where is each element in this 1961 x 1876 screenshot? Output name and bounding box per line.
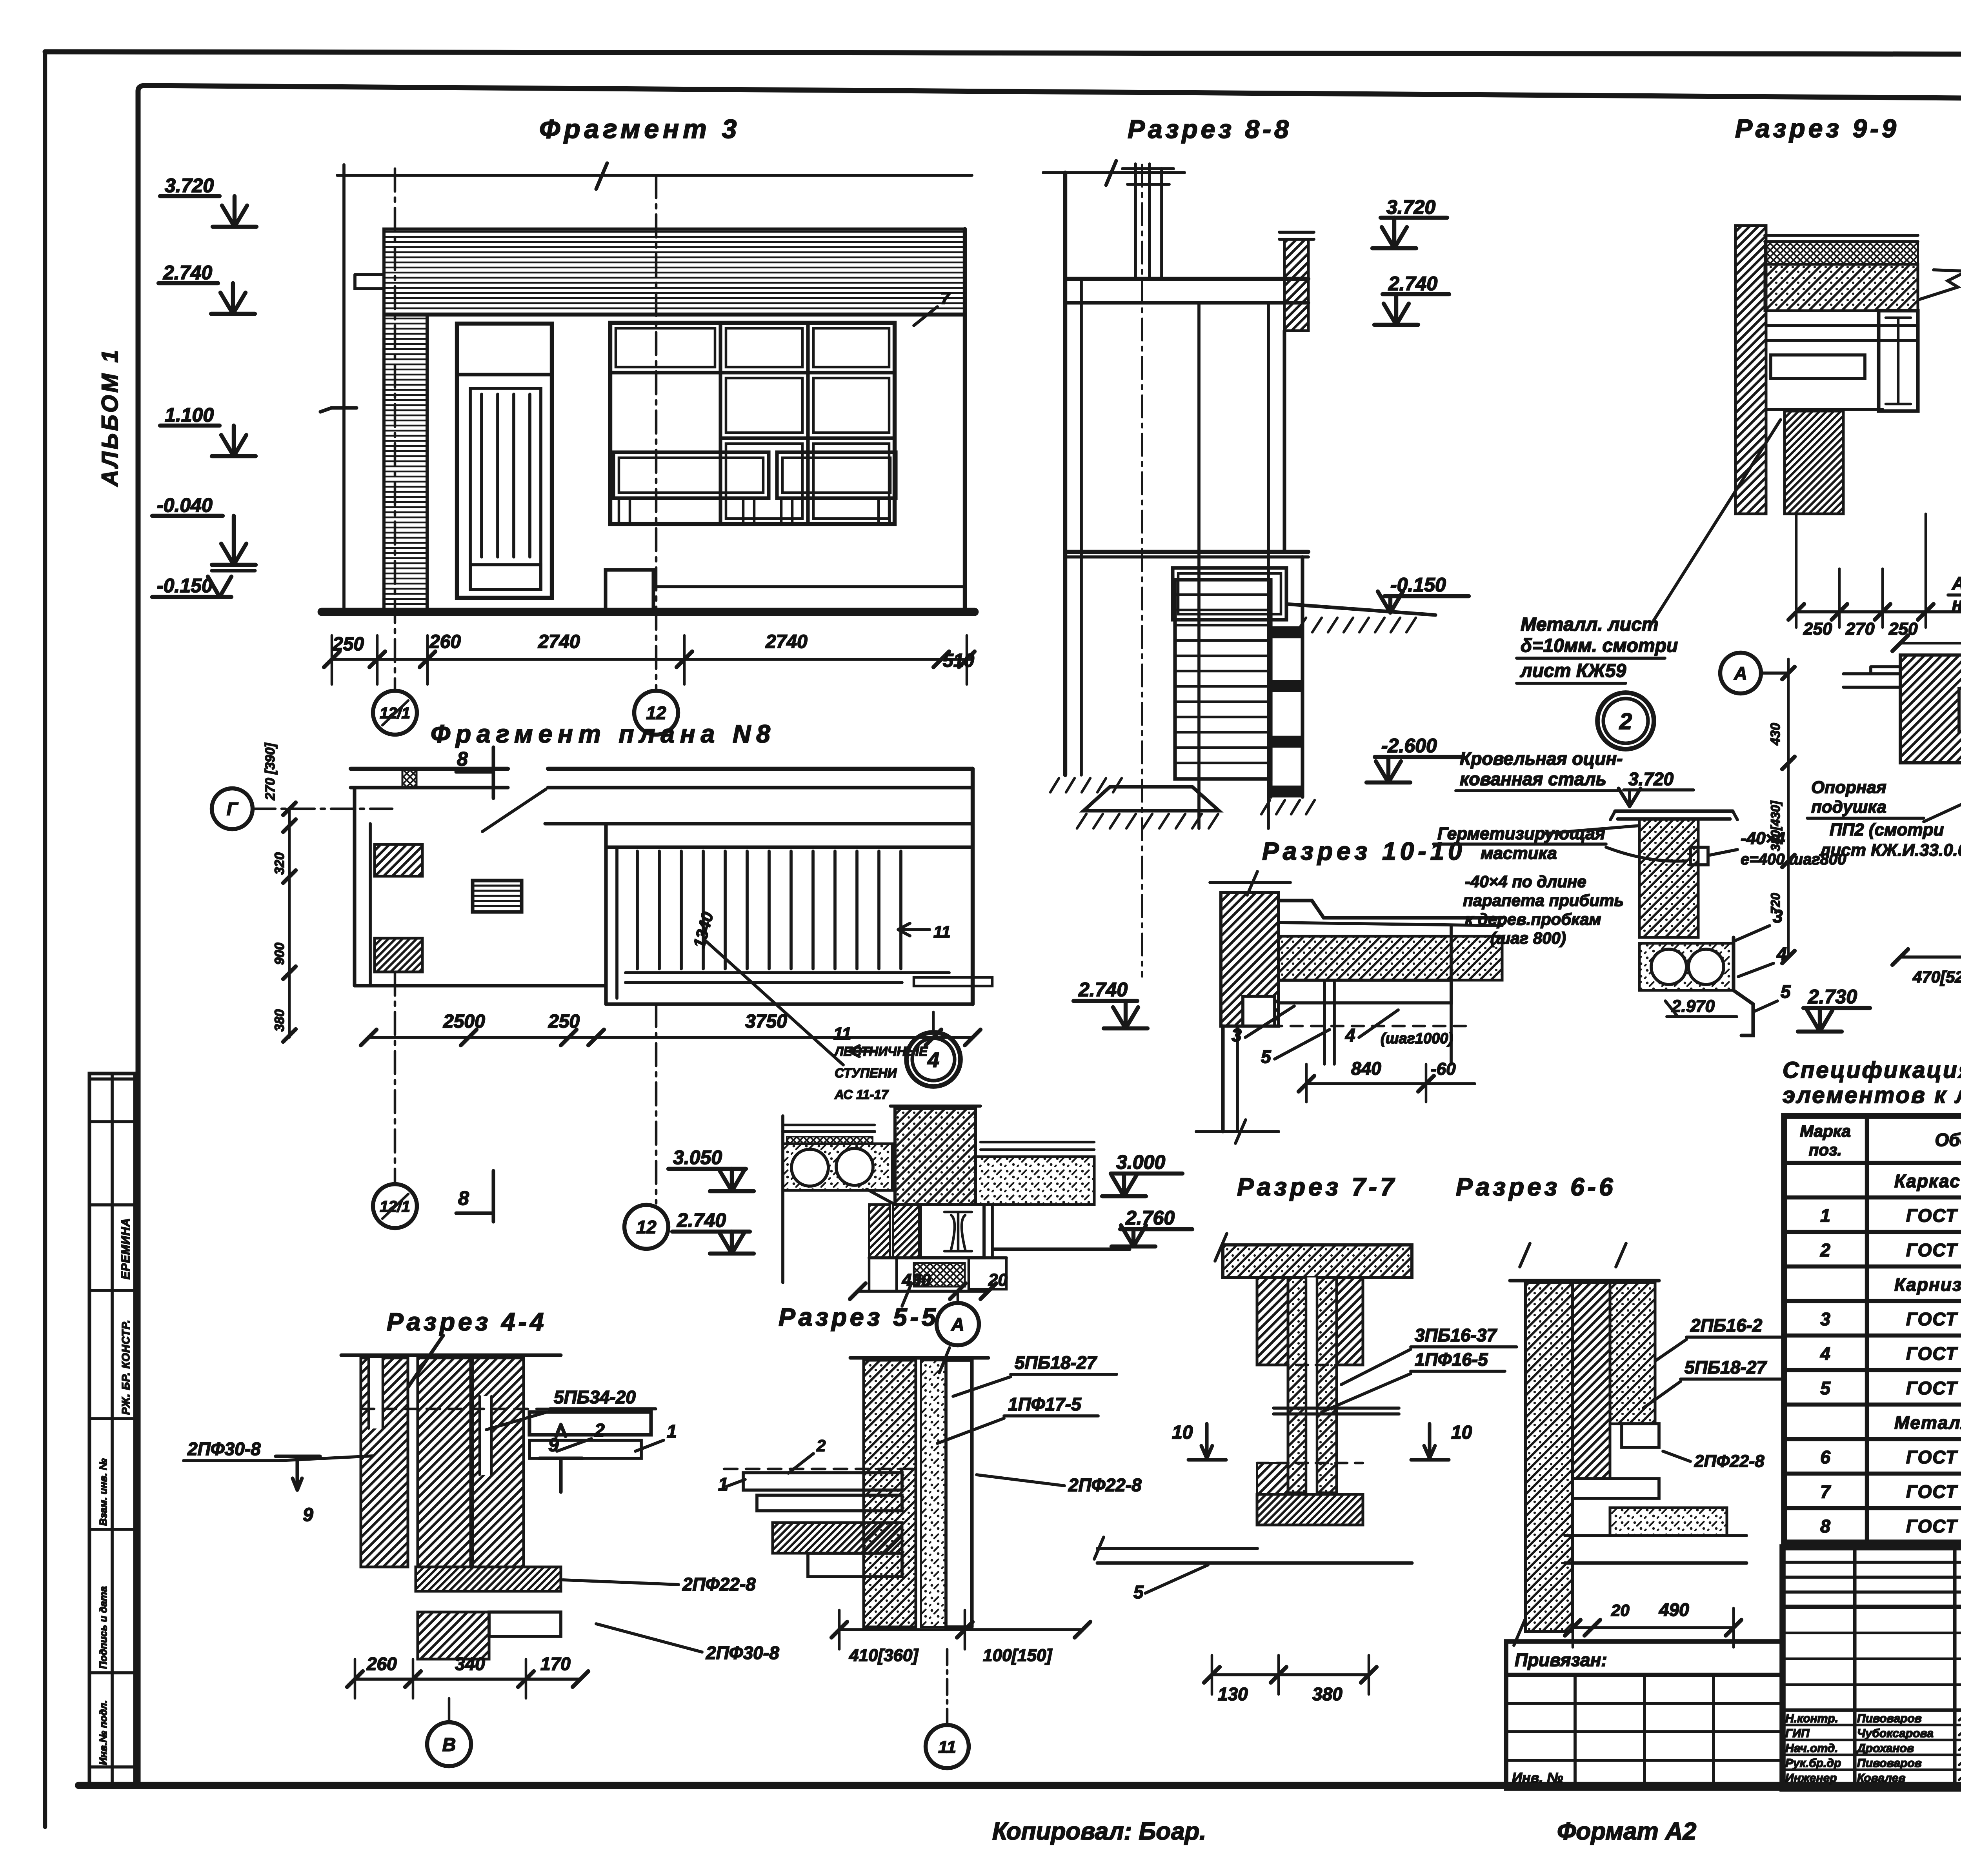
svg-text:20: 20 — [988, 1270, 1008, 1290]
plan column 2 (hatched) — [375, 938, 422, 972]
plan left wall — [353, 788, 356, 986]
6-6 tall wall (dotted hatch) — [1526, 1283, 1573, 1632]
svg-text:Привязан:: Привязан: — [1515, 1650, 1607, 1670]
svg-text:130: 130 — [1218, 1684, 1248, 1704]
spec table grid — [1784, 1116, 1961, 1543]
svg-text:4: 4 — [1345, 1025, 1355, 1045]
svg-text:2: 2 — [1619, 709, 1632, 734]
svg-text:10: 10 — [1451, 1422, 1472, 1443]
svg-text:2740: 2740 — [765, 631, 808, 652]
svg-text:ГОСТ 8510-86: ГОСТ 8510-86 — [1906, 1447, 1961, 1467]
svg-text:3ПБ16-37: 3ПБ16-37 — [1415, 1325, 1497, 1345]
left margin stamp strip — [89, 1074, 135, 1785]
svg-text:900: 900 — [272, 943, 287, 965]
facade right edge — [963, 229, 967, 612]
svg-text:9: 9 — [303, 1505, 313, 1525]
9-9 beam under slab — [1766, 324, 1918, 327]
svg-text:-0.040: -0.040 — [157, 494, 213, 516]
8-8 right parapet (hatched) — [1284, 239, 1308, 331]
svg-text:2.730: 2.730 — [1808, 986, 1857, 1008]
svg-text:Обозначение: Обозначение — [1935, 1130, 1961, 1150]
svg-text:2: 2 — [594, 1420, 605, 1440]
10-10 roof slab — [1279, 901, 1502, 918]
10-10 bottom boundary — [1221, 1026, 1224, 1132]
plan door leaf — [482, 789, 546, 832]
svg-text:11: 11 — [933, 923, 951, 941]
svg-text:2: 2 — [1820, 1240, 1830, 1260]
svg-text:Подпись и дата: Подпись и дата — [97, 1586, 109, 1669]
plan axis circle 12/1 bottom — [394, 973, 397, 1184]
4-4 pier 2 (hatched) — [418, 1358, 471, 1567]
svg-text:ГОСТ 103-76*: ГОСТ 103-76* — [1906, 1516, 1961, 1536]
svg-text:ГИП: ГИП — [1785, 1727, 1810, 1740]
8-8 base flare — [1084, 787, 1219, 811]
svg-text:подушка: подушка — [1811, 797, 1886, 817]
svg-text:Г: Г — [227, 799, 238, 819]
6-6 sill band (dotted) — [1610, 1508, 1727, 1536]
svg-text:5: 5 — [1133, 1582, 1144, 1602]
node 4 right slab strip — [980, 1141, 1094, 1144]
facade ground line — [322, 608, 975, 616]
6-6 top line — [1510, 1279, 1659, 1282]
svg-text:250: 250 — [332, 634, 364, 655]
svg-text:1.100: 1.100 — [165, 404, 214, 426]
facade parapet band (brick hatch) — [384, 229, 965, 315]
svg-text:Марка: Марка — [1800, 1122, 1851, 1140]
node 4 I-beam box — [920, 1205, 984, 1258]
binding table — [1506, 1641, 1783, 1789]
8-8 window frame — [1173, 568, 1286, 620]
svg-text:кованная сталь: кованная сталь — [1460, 769, 1606, 789]
svg-text:Разрез 8-8: Разрез 8-8 — [1128, 115, 1292, 144]
svg-text:ные листы δ=10мм.: ные листы δ=10мм. — [1952, 594, 1961, 614]
4-4 dim line — [355, 1678, 580, 1681]
svg-text:ГОСТ 8510-86: ГОСТ 8510-86 — [1906, 1343, 1961, 1364]
node 2 slab with voids — [1639, 943, 1734, 990]
svg-text:ГОСТ 8510-86: ГОСТ 8510-86 — [1906, 1205, 1961, 1226]
8-8 chimney stack — [1134, 164, 1137, 279]
10-10 ceiling band — [1279, 980, 1451, 1003]
svg-text:-40×4 по длине: -40×4 по длине — [1465, 872, 1586, 891]
9-9 insulation band (crosshatch) — [1765, 242, 1918, 264]
svg-text:Фрагмент 3: Фрагмент 3 — [539, 114, 740, 144]
4-4 sill band (hatched) — [416, 1567, 561, 1591]
svg-text:2: 2 — [816, 1436, 826, 1455]
svg-text:парапета прибить: парапета прибить — [1463, 891, 1624, 910]
facade cornice tie — [355, 275, 384, 289]
svg-text:8: 8 — [457, 748, 468, 770]
svg-text:3.050: 3.050 — [673, 1146, 722, 1168]
svg-text:Рук.бр.др: Рук.бр.др — [1785, 1757, 1841, 1770]
svg-text:270: 270 — [1845, 619, 1875, 639]
svg-text:Формат А2: Формат А2 — [1557, 1818, 1696, 1845]
svg-text:АЛЬБОМ 1: АЛЬБОМ 1 — [97, 348, 123, 487]
node 2 coping — [1615, 811, 1733, 819]
4-4 section mark 9 left — [276, 1456, 320, 1490]
circled axis mark A — [1720, 653, 1761, 693]
8-8 axis dash-dot — [1141, 165, 1143, 977]
svg-text:12: 12 — [636, 1217, 657, 1237]
svg-text:элементов к листу 32: элементов к листу 32 — [1783, 1083, 1961, 1108]
title block frame — [1783, 1547, 1961, 1789]
svg-text:1: 1 — [667, 1421, 677, 1441]
node 4 insulation strip — [787, 1137, 873, 1144]
svg-text:Спецификация металлических: Спецификация металлических — [1783, 1057, 1961, 1083]
svg-text:410[360]: 410[360] — [849, 1646, 919, 1665]
svg-text:320: 320 — [272, 852, 287, 875]
svg-text:А: А — [951, 1314, 964, 1335]
svg-text:ЕРЕМИНА: ЕРЕМИНА — [119, 1218, 132, 1279]
node A top dim — [1900, 642, 1961, 645]
window benches — [613, 452, 769, 498]
svg-text:Нач.отд.: Нач.отд. — [1785, 1742, 1838, 1755]
10-10 hanger verticals — [1323, 980, 1326, 1064]
plan top wall left — [351, 767, 508, 771]
8-8 interior verticals — [1197, 303, 1201, 828]
8-8 left wall footing hatch — [1050, 778, 1059, 792]
svg-text:5ПБ18-27: 5ПБ18-27 — [1684, 1357, 1767, 1377]
svg-text:8: 8 — [458, 1187, 469, 1209]
svg-text:Каркас подшивного потолка КПК: Каркас подшивного потолка КПК — [1894, 1171, 1961, 1191]
svg-text:5ПБ34-20: 5ПБ34-20 — [554, 1387, 636, 1407]
svg-text:1ПФ17-5: 1ПФ17-5 — [1008, 1394, 1082, 1414]
axis circle 12/1 — [373, 691, 417, 735]
svg-text:380: 380 — [1312, 1684, 1343, 1704]
7-7 dashed lines — [1257, 1364, 1363, 1367]
4-4 pier 3 (hatched) — [473, 1358, 524, 1567]
4-4 top line — [341, 1353, 561, 1357]
svg-text:лист КЖ59: лист КЖ59 — [1520, 661, 1626, 681]
axis line 12 — [655, 175, 658, 689]
plan dimension line bottom — [369, 1036, 973, 1039]
svg-text:2.970: 2.970 — [1671, 997, 1715, 1016]
10-10 dashed ceiling line — [1230, 1025, 1467, 1028]
svg-text:Разрез 6-6: Разрез 6-6 — [1456, 1173, 1616, 1201]
sheet outer border — [45, 52, 1961, 55]
facade left dimension line — [342, 165, 346, 612]
svg-text:510: 510 — [943, 650, 974, 671]
9-9 left wall (hatched) — [1735, 226, 1766, 514]
svg-text:250: 250 — [548, 1011, 580, 1032]
svg-text:170: 170 — [540, 1654, 571, 1674]
svg-text:Герметизирующая: Герметизирующая — [1437, 824, 1605, 843]
svg-text:Разрез 7-7: Разрез 7-7 — [1237, 1173, 1397, 1201]
9-9 dim guides — [1795, 514, 1798, 628]
svg-text:Кровельная оцин-: Кровельная оцин- — [1460, 748, 1623, 769]
10-10 dim 840 — [1306, 1082, 1426, 1085]
plan stair walls — [545, 822, 973, 825]
svg-text:7: 7 — [940, 289, 951, 308]
svg-text:Карнизная металлическая перемы: Карнизная металлическая перемычка КМП — [1894, 1274, 1961, 1295]
7-7 tall pier (hatched) — [1288, 1277, 1337, 1493]
svg-text:250: 250 — [1888, 619, 1918, 639]
svg-text:В: В — [442, 1734, 456, 1755]
svg-text:490: 490 — [1659, 1599, 1689, 1620]
svg-text:2ПФ22-8: 2ПФ22-8 — [682, 1574, 756, 1594]
svg-text:-2.600: -2.600 — [1381, 735, 1437, 757]
svg-text:4: 4 — [927, 1048, 939, 1072]
6-6 dim 20 490 — [1573, 1626, 1734, 1629]
svg-text:Дроханов: Дроханов — [1856, 1742, 1914, 1755]
5-5 dim line — [839, 1628, 1082, 1631]
svg-text:5ПБ18-27: 5ПБ18-27 — [1015, 1352, 1097, 1373]
svg-text:Разрез 9-9: Разрез 9-9 — [1735, 114, 1899, 143]
svg-text:Н.контр.: Н.контр. — [1785, 1712, 1838, 1725]
svg-text:2ПФ22-8: 2ПФ22-8 — [1068, 1475, 1142, 1495]
svg-text:5: 5 — [1781, 981, 1791, 1002]
svg-text:100[150]: 100[150] — [983, 1646, 1052, 1665]
7-7 tie rod — [1273, 1407, 1399, 1410]
node 4 lower piers — [869, 1205, 890, 1258]
svg-text:3.720: 3.720 — [1386, 196, 1435, 218]
node 4 lintel right verticals — [982, 1205, 986, 1258]
svg-text:Асбестоцемент-: Асбестоцемент- — [1952, 573, 1961, 593]
svg-text:ГОСТ 8240-72*: ГОСТ 8240-72* — [1906, 1309, 1961, 1329]
axis circle 12 — [634, 691, 678, 735]
4-4 pier 1 (hatched) — [361, 1358, 408, 1567]
7-7 upper pier left — [1257, 1277, 1288, 1365]
9-9 lintel steel angle — [1771, 355, 1865, 378]
8-8 left wall — [1063, 173, 1067, 775]
svg-text:Пивоваров: Пивоваров — [1857, 1757, 1922, 1770]
svg-text:470[520]: 470[520] — [1912, 968, 1961, 986]
svg-text:7: 7 — [1820, 1481, 1831, 1502]
5-5 circled 11 — [946, 1649, 949, 1724]
node 4 level line 2.760 — [993, 1247, 1130, 1251]
svg-text:430: 430 — [1768, 723, 1783, 746]
svg-text:-60: -60 — [1431, 1059, 1456, 1079]
svg-text:4: 4 — [1820, 1343, 1830, 1364]
svg-text:1: 1 — [718, 1474, 728, 1494]
4-4 section mark 9 right — [539, 1425, 582, 1492]
svg-text:2.740: 2.740 — [1078, 979, 1128, 1001]
svg-text:3: 3 — [1232, 1025, 1242, 1045]
10-10 slab band (concrete hatch) — [1279, 936, 1502, 980]
svg-text:2740: 2740 — [538, 631, 580, 652]
7-7 floor lines — [1097, 1547, 1257, 1550]
facade door D1 — [457, 324, 552, 598]
svg-text:3.720: 3.720 — [165, 175, 214, 197]
svg-text:Металлическое ограждение МО (м: Металлическое ограждение МО (мест 3) — [1894, 1412, 1961, 1433]
svg-text:340: 340 — [455, 1654, 485, 1674]
svg-text:Фрагмент плана N8: Фрагмент плана N8 — [431, 720, 776, 748]
plan door jamb hatch — [402, 770, 417, 787]
10-10 wall notch — [1243, 996, 1275, 1026]
9-9 slab (concrete) — [1765, 264, 1918, 311]
stair rail — [626, 971, 949, 974]
node 4 bottom blocks — [869, 1256, 1006, 1259]
4-4 dashed level line — [361, 1408, 651, 1410]
node 4 circled 4 — [932, 1012, 935, 1032]
title block signature grid — [1853, 1547, 1856, 1789]
9-9 dimension line below — [1796, 610, 1961, 613]
svg-text:Металл. лист: Металл. лист — [1521, 614, 1659, 635]
svg-text:Копировал: Боар.: Копировал: Боар. — [992, 1818, 1206, 1845]
6-6 lintel pier 1 (hatched) — [1573, 1283, 1610, 1479]
svg-text:380: 380 — [272, 1009, 287, 1032]
svg-text:δ=10мм. смотри: δ=10мм. смотри — [1521, 635, 1678, 656]
node 4 bottom dim — [858, 1290, 988, 1293]
svg-text:АС 11-17: АС 11-17 — [834, 1087, 889, 1102]
9-9 pier below (hatched) — [1785, 411, 1843, 514]
svg-text:840: 840 — [1351, 1058, 1381, 1079]
svg-text:ГОСТ 8510-86: ГОСТ 8510-86 — [1906, 1240, 1961, 1260]
node 2 roof line left — [1545, 826, 1639, 833]
svg-text:-0.150: -0.150 — [1390, 574, 1446, 596]
node 4 slope — [867, 1189, 895, 1205]
svg-text:2ПБ16-2: 2ПБ16-2 — [1690, 1315, 1763, 1336]
plan top wall right — [548, 767, 973, 771]
8-8 ground slope and hatch — [1286, 604, 1435, 615]
axis line 12/1 — [394, 169, 397, 689]
svg-text:2.740: 2.740 — [677, 1209, 726, 1231]
node 2 parapet wall (hatched) — [1639, 819, 1698, 937]
node 2 strap detail — [1690, 847, 1708, 865]
8-8 floor -0.150 — [1065, 550, 1308, 554]
8-8 ceiling slab 2.740 — [1065, 277, 1308, 281]
svg-text:к дерев.пробкам: к дерев.пробкам — [1465, 910, 1601, 928]
5-5 lower bar — [808, 1553, 902, 1577]
stair up arrow 11 — [898, 923, 930, 936]
8-8 stair treads — [1175, 580, 1271, 779]
7-7 bottom blocks — [1257, 1463, 1288, 1494]
svg-text:ПП2 (смотри: ПП2 (смотри — [1830, 820, 1944, 839]
svg-text:260: 260 — [366, 1654, 397, 1674]
svg-text:Инв. №: Инв. № — [1512, 1770, 1563, 1786]
svg-text:380[430]: 380[430] — [1768, 801, 1783, 851]
6-6 lower bars — [1573, 1479, 1659, 1498]
facade bottom dimension line — [332, 658, 973, 661]
node A console — [1843, 667, 1900, 687]
svg-text:СТУПЕНИ: СТУПЕНИ — [835, 1066, 897, 1080]
svg-text:Пивоваров: Пивоваров — [1857, 1712, 1922, 1725]
svg-text:3750: 3750 — [745, 1011, 787, 1032]
5-5 pier right — [946, 1360, 972, 1627]
4-4 circled B — [448, 1698, 451, 1722]
plan vent grille — [473, 881, 522, 912]
svg-text:20: 20 — [1611, 1601, 1630, 1619]
svg-text:2ПФ30-8: 2ПФ30-8 — [706, 1643, 779, 1663]
plan section mark 8 bottom — [456, 1171, 493, 1222]
node 4 hollow core slab — [783, 1144, 892, 1190]
svg-text:мастика: мастика — [1481, 844, 1557, 863]
svg-text:11: 11 — [833, 1024, 851, 1043]
svg-text:260: 260 — [429, 631, 461, 652]
svg-text:8: 8 — [1820, 1516, 1830, 1536]
5-5 dashed level line — [724, 1468, 918, 1470]
svg-text:Чубоксарова: Чубоксарова — [1857, 1727, 1934, 1740]
node 2 drip edge — [1734, 937, 1753, 1035]
svg-text:А: А — [1734, 663, 1747, 684]
svg-text:Разрез 4-4: Разрез 4-4 — [387, 1308, 547, 1336]
axis circle Г — [212, 788, 253, 829]
9-9 roofing lines — [1765, 234, 1918, 237]
4-4 lintel bars — [529, 1412, 651, 1435]
circled node mark 2 — [1597, 693, 1654, 749]
7-7 top slab (hatched) — [1223, 1245, 1412, 1277]
svg-text:2.760: 2.760 — [1125, 1207, 1175, 1229]
svg-text:2.740: 2.740 — [1388, 273, 1437, 295]
stair treads — [636, 851, 639, 969]
plan left dim column — [288, 808, 291, 1037]
svg-text:5: 5 — [1820, 1378, 1831, 1398]
5-5 top line — [850, 1356, 988, 1359]
svg-text:11: 11 — [938, 1738, 956, 1757]
node 4 beam block (hatched) — [895, 1108, 975, 1205]
svg-text:1: 1 — [1820, 1205, 1830, 1226]
6-6 step — [1622, 1424, 1659, 1447]
plan section mark 8 top — [456, 747, 493, 798]
svg-text:3.000: 3.000 — [1116, 1151, 1165, 1173]
svg-text:2.740: 2.740 — [163, 262, 212, 284]
svg-text:поз.: поз. — [1809, 1141, 1842, 1159]
plan column (hatched) — [375, 844, 422, 876]
9-9 I-beam at edge — [1879, 311, 1918, 411]
node A beam block (hatched) — [1900, 655, 1961, 763]
plan axis circle 12 bottom — [655, 1004, 658, 1203]
svg-text:5: 5 — [1261, 1046, 1272, 1067]
5-5 sill band (hatched) — [773, 1523, 902, 1553]
svg-text:6: 6 — [1820, 1447, 1830, 1467]
svg-text:9: 9 — [548, 1435, 559, 1456]
svg-text:3.720: 3.720 — [1628, 769, 1674, 789]
svg-text:-0.150: -0.150 — [157, 575, 213, 597]
svg-text:Разрез 10-10: Разрез 10-10 — [1262, 837, 1466, 865]
svg-text:2ПФ30-8: 2ПФ30-8 — [187, 1439, 261, 1459]
svg-text:Опорная: Опорная — [1811, 778, 1886, 797]
svg-text:430: 430 — [902, 1270, 931, 1290]
node A vertical dim line — [1787, 659, 1790, 957]
facade entrance step — [606, 570, 653, 612]
8-8 top dimension line — [1043, 171, 1184, 174]
svg-text:10: 10 — [1172, 1422, 1193, 1443]
svg-text:720: 720 — [1768, 893, 1783, 914]
svg-text:3: 3 — [1820, 1309, 1830, 1329]
node 4 slab left edge — [781, 1116, 784, 1283]
5-5 pier mid (dotted) — [921, 1360, 946, 1627]
svg-text:лист КЖ.И.33.0.0): лист КЖ.И.33.0.0) — [1819, 841, 1961, 860]
svg-text:(шаг 800): (шаг 800) — [1490, 929, 1566, 947]
4-4 lower pier (hatched) — [418, 1612, 489, 1659]
svg-text:1ПФ16-5: 1ПФ16-5 — [1415, 1349, 1488, 1370]
svg-text:Разрез 5-5: Разрез 5-5 — [779, 1303, 939, 1331]
svg-text:2ПФ22-8: 2ПФ22-8 — [1694, 1452, 1765, 1471]
node 4 circled A — [957, 1291, 959, 1303]
node A dim line bottom — [1900, 955, 1961, 959]
7-7 upper pier right — [1337, 1277, 1363, 1365]
10-10 parapet wall (hatched) — [1221, 893, 1279, 1026]
facade left pier (brick hatch) — [384, 315, 427, 612]
svg-text:РЖ. БР. КОНСТР.: РЖ. БР. КОНСТР. — [120, 1319, 132, 1415]
6-6 floor lines — [1565, 1534, 1746, 1537]
5-5 pier left (hatched) — [864, 1360, 916, 1627]
svg-text:250: 250 — [1803, 619, 1832, 639]
svg-text:(шаг1000): (шаг1000) — [1381, 1030, 1453, 1047]
svg-text:2500: 2500 — [443, 1011, 485, 1032]
svg-text:ГОСТ 8509-86: ГОСТ 8509-86 — [1906, 1378, 1961, 1398]
8-8 stair wall — [1269, 580, 1272, 797]
svg-text:Взам. инв. №: Взам. инв. № — [97, 1458, 109, 1526]
node 4 roofing lines — [783, 1124, 875, 1126]
7-7 dim lines — [1212, 1673, 1369, 1676]
facade window W1 — [610, 323, 895, 524]
svg-text:Инв.№ подл.: Инв.№ подл. — [97, 1700, 109, 1765]
svg-text:Инженер: Инженер — [1785, 1772, 1837, 1785]
svg-text:ГОСТ 2590-71*: ГОСТ 2590-71* — [1906, 1481, 1961, 1502]
svg-text:270 [390]: 270 [390] — [263, 742, 278, 801]
svg-text:Ковалев: Ковалев — [1857, 1772, 1905, 1785]
6-6 lintel pier 2 (hatched) — [1610, 1283, 1655, 1424]
